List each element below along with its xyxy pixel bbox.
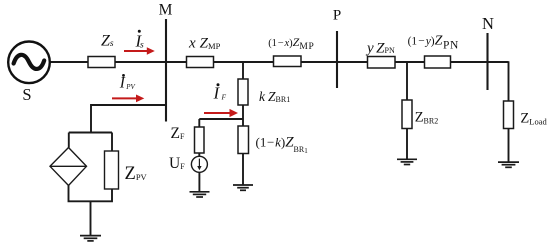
resistor Z_Load	[504, 101, 514, 129]
wire main horizontal segments	[50, 61, 509, 63]
current arrow I_PV	[112, 95, 144, 103]
wire fault node horizontal	[199, 118, 243, 120]
ground Z_BR2	[397, 159, 417, 164]
wire Z_F stub	[198, 119, 200, 127]
ground PV	[80, 236, 101, 241]
svg-text:s: s	[140, 41, 144, 51]
wire PV parallel top	[69, 132, 112, 134]
svg-text:M: M	[159, 2, 173, 19]
svg-text:N: N	[482, 14, 494, 33]
resistor x Z_MP	[187, 57, 214, 68]
resistor Z_S	[88, 57, 115, 68]
label I_PV	[119, 74, 136, 92]
resistor (1-y)Z_PN	[425, 56, 451, 68]
wire Z_BR2 branch	[406, 62, 408, 100]
ground Z_Load	[498, 162, 519, 167]
label I_S	[135, 30, 145, 51]
source S circle	[8, 42, 50, 84]
wire PV branch top	[91, 105, 166, 133]
wire below (1-k)Z_BR1	[242, 154, 244, 186]
svg-text:I: I	[119, 75, 126, 92]
ground fault branch	[233, 185, 253, 190]
node M bus	[165, 19, 167, 122]
resistor y Z_PN	[368, 57, 396, 69]
source U_F	[191, 156, 207, 172]
wire diamond stub	[68, 133, 70, 148]
wire Z_PV stub	[111, 133, 113, 152]
PV source diamond	[50, 148, 87, 186]
wire Z_Load to ground	[508, 129, 510, 163]
resistor Z_BR2	[402, 100, 412, 129]
wire fault branch from main line	[242, 62, 244, 79]
wire below k Z_BR1	[242, 105, 244, 126]
resistor Z_F	[195, 127, 205, 153]
svg-text:S: S	[22, 85, 31, 104]
svg-text:P: P	[333, 8, 341, 24]
svg-text:PV: PV	[125, 83, 135, 91]
node N bus	[486, 33, 488, 90]
wire Z_BR2 to ground	[406, 129, 408, 160]
wire U_F to ground	[198, 172, 200, 192]
resistor Z_PV	[105, 151, 119, 189]
wire PV to ground	[90, 201, 92, 235]
ground U_F	[190, 192, 210, 197]
current arrow I_S	[124, 47, 155, 55]
svg-text:F: F	[221, 93, 227, 102]
wire to Z_Load	[508, 61, 510, 101]
current arrow I_F	[204, 109, 238, 117]
node P bus	[336, 31, 338, 88]
resistor (1-k)Z_BR1	[238, 126, 249, 154]
wire Z_F to U_F	[198, 153, 200, 156]
wire PV bottom	[69, 186, 113, 202]
resistor (1-x)Z_MP	[274, 56, 302, 67]
label I_F	[213, 83, 227, 102]
resistor k Z_BR1	[238, 79, 248, 105]
